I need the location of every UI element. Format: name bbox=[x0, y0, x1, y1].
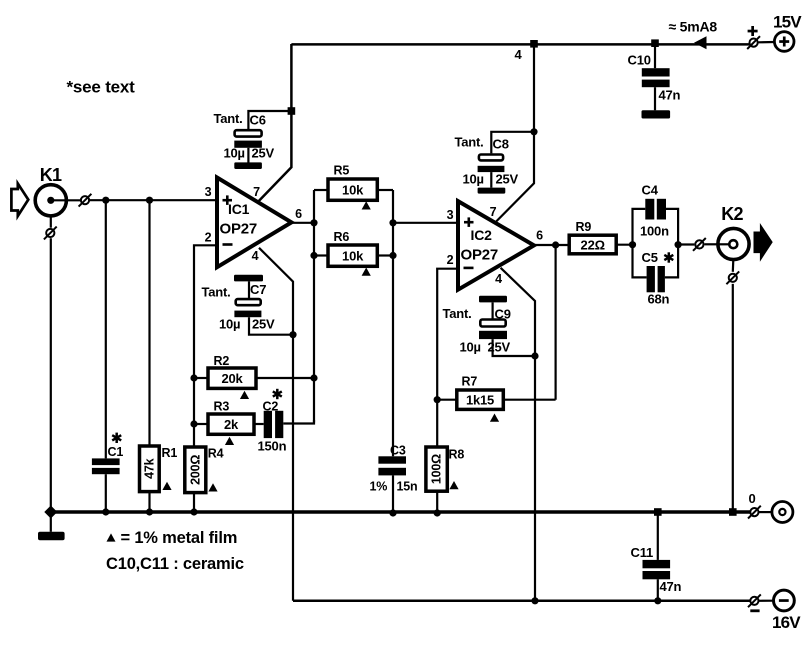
wire feedback bus vertical bbox=[313, 190, 315, 423]
resistor R5 bbox=[314, 189, 328, 191]
junction node (C11-V- rail) bbox=[654, 597, 661, 604]
capacitor C10 bbox=[654, 44, 656, 68]
svg-text:R5: R5 bbox=[334, 164, 350, 178]
svg-text:10k: 10k bbox=[342, 183, 364, 198]
svg-text:C2: C2 bbox=[263, 400, 279, 414]
svg-text:4: 4 bbox=[495, 272, 502, 286]
power arrow on V+ rail bbox=[694, 36, 707, 49]
op-amp IC1 bbox=[217, 178, 292, 268]
svg-text:0: 0 bbox=[749, 491, 756, 506]
junction node (bus2-out) bbox=[389, 219, 396, 226]
svg-text:R4: R4 bbox=[208, 446, 224, 460]
svg-text:3: 3 bbox=[447, 208, 454, 222]
resistor R2 bbox=[194, 377, 208, 379]
svg-text:47n: 47n bbox=[659, 88, 681, 103]
svg-text:IC2: IC2 bbox=[471, 227, 493, 243]
wire K1 to IC1 pin 3 bbox=[89, 199, 217, 201]
svg-text:10µ: 10µ bbox=[224, 146, 245, 161]
junction node (V+ to IC2 drop) bbox=[530, 40, 538, 48]
wire IC1 pin 2 bbox=[194, 245, 217, 447]
svg-text:1k15: 1k15 bbox=[466, 392, 494, 407]
svg-text:R9: R9 bbox=[576, 220, 592, 234]
junction node (C3-ground rail) bbox=[389, 509, 396, 516]
capacitor C2 bbox=[264, 411, 272, 438]
wire to K2 bbox=[678, 243, 694, 245]
capacitor C7 tantalum bbox=[234, 275, 263, 282]
ground symbol bbox=[50, 512, 52, 532]
svg-text:C5: C5 bbox=[642, 250, 658, 265]
junction node (C9 tap) bbox=[531, 352, 538, 359]
svg-text:R3: R3 bbox=[214, 399, 230, 413]
svg-text:OP27: OP27 bbox=[461, 247, 499, 264]
capacitor C6 tantalum bbox=[248, 111, 291, 129]
svg-text:Tant.: Tant. bbox=[214, 111, 243, 126]
junction node (C11-rail) bbox=[654, 508, 662, 516]
output arrow bbox=[755, 227, 772, 258]
junction node (bus-R2) bbox=[310, 374, 317, 381]
ground bar below C6 bbox=[234, 162, 262, 169]
svg-text:2: 2 bbox=[205, 231, 212, 245]
svg-text:*see text: *see text bbox=[67, 78, 136, 97]
junction node (out-R7) bbox=[552, 241, 559, 248]
svg-text:Tant.: Tant. bbox=[455, 135, 484, 150]
junction node (input-C1) bbox=[102, 197, 109, 204]
wire R7 up to output node bbox=[554, 245, 556, 400]
svg-text:R6: R6 bbox=[334, 230, 350, 244]
junction node (C6 tap) bbox=[288, 107, 296, 115]
svg-text:4: 4 bbox=[252, 249, 259, 263]
resistor R6 bbox=[314, 254, 328, 256]
svg-text:15n: 15n bbox=[397, 480, 418, 494]
svg-text:6: 6 bbox=[295, 207, 302, 221]
wire K2 shield bbox=[732, 260, 735, 272]
capacitor C4 bbox=[633, 209, 646, 245]
svg-text:Tant.: Tant. bbox=[443, 306, 472, 321]
svg-text:25V: 25V bbox=[252, 146, 275, 161]
resistor R4 bbox=[185, 447, 206, 493]
terminal 15V positive bbox=[774, 32, 794, 52]
svg-text:C10,C11 : ceramic: C10,C11 : ceramic bbox=[106, 555, 244, 573]
svg-text:C7: C7 bbox=[250, 282, 266, 297]
svg-text:K2: K2 bbox=[721, 204, 743, 224]
connector pin (K1 hot) bbox=[79, 194, 92, 207]
svg-text:20k: 20k bbox=[221, 371, 243, 386]
svg-text:R2: R2 bbox=[214, 354, 230, 368]
wire connector to 15V terminal bbox=[759, 41, 775, 43]
input arrow bbox=[11, 184, 28, 217]
capacitor C8 tantalum bbox=[491, 132, 534, 154]
junction node (K2 shield-rail) bbox=[729, 508, 737, 516]
svg-text:22Ω: 22Ω bbox=[581, 237, 605, 252]
wire IC2 pin 2 bbox=[437, 269, 458, 447]
resistor R7 bbox=[437, 399, 457, 401]
svg-text:1%: 1% bbox=[370, 480, 388, 494]
capacitor C11 bbox=[657, 512, 659, 560]
junction node (V+ to C10) bbox=[651, 39, 659, 47]
svg-text:C3: C3 bbox=[390, 444, 406, 458]
junction diamond (K1 shield-rail) bbox=[44, 505, 57, 518]
svg-text:7: 7 bbox=[490, 205, 497, 219]
wire to IC2 pin 3 bbox=[393, 222, 458, 224]
wire K1 shield stub bbox=[50, 216, 52, 228]
svg-text:100Ω: 100Ω bbox=[430, 454, 444, 484]
svg-text:16V: 16V bbox=[772, 613, 801, 632]
rail V- bbox=[293, 599, 750, 602]
connector pin (K2 shield) bbox=[726, 271, 739, 284]
minus label at connector bbox=[750, 609, 759, 612]
junction node (pin2-R2) bbox=[190, 374, 197, 381]
resistor R1 bbox=[148, 203, 150, 446]
wire V+ top rail bbox=[291, 43, 749, 46]
connector -15V bbox=[748, 594, 761, 607]
junction node (R9-C4C5) bbox=[629, 241, 636, 248]
svg-text:R8: R8 bbox=[449, 448, 465, 462]
svg-text:Tant.: Tant. bbox=[202, 285, 231, 300]
svg-text:C9: C9 bbox=[495, 307, 511, 322]
op-amp IC2 bbox=[458, 201, 534, 290]
ground bar below C8 bbox=[478, 188, 506, 194]
svg-text:C8: C8 bbox=[493, 137, 509, 152]
capacitor C9 tantalum bbox=[479, 296, 507, 303]
junction node (bus-R6) bbox=[310, 252, 317, 259]
wire V+ drop to IC1 pin 7 bbox=[258, 44, 291, 202]
svg-text:10µ: 10µ bbox=[463, 172, 484, 187]
connector +15V bbox=[747, 36, 760, 49]
svg-text:R1: R1 bbox=[162, 446, 178, 460]
ground bar below C10 bbox=[642, 110, 671, 118]
svg-text:= 1% metal film: = 1% metal film bbox=[121, 529, 238, 547]
svg-text:C1: C1 bbox=[108, 445, 124, 459]
svg-text:10µ: 10µ bbox=[219, 317, 240, 332]
wire IC2 output bbox=[533, 244, 569, 246]
plus label at connector bbox=[748, 30, 758, 33]
svg-text:100n: 100n bbox=[640, 223, 669, 238]
junction node (R8-ground rail) bbox=[434, 509, 441, 516]
svg-text:47n: 47n bbox=[660, 579, 682, 594]
junction node (bus2-R6) bbox=[389, 252, 396, 259]
wire K1 shield to ground rail bbox=[50, 238, 52, 511]
svg-text:25V: 25V bbox=[252, 317, 275, 332]
terminal -15V bbox=[774, 590, 795, 611]
svg-text:C4: C4 bbox=[642, 183, 659, 198]
svg-text:4: 4 bbox=[515, 47, 523, 62]
wire right bus down to C3 bbox=[392, 190, 394, 456]
connector pin (K1 shield) bbox=[44, 227, 57, 240]
junction node (C8 tap) bbox=[530, 128, 537, 135]
wire IC1 pin 4 to V- line bbox=[259, 248, 293, 601]
junction node (C7 tap) bbox=[289, 331, 296, 338]
svg-text:6: 6 bbox=[536, 229, 543, 243]
svg-text:3: 3 bbox=[205, 185, 212, 199]
svg-text:OP27: OP27 bbox=[220, 221, 258, 238]
wire IC1 output to feedback bus bbox=[292, 222, 314, 224]
connector pin (K2 hot) bbox=[693, 238, 706, 251]
ground rail 0V bbox=[49, 510, 751, 513]
svg-text:7: 7 bbox=[253, 185, 260, 199]
svg-text:10µ: 10µ bbox=[460, 340, 481, 355]
junction node (C4C5-K2) bbox=[675, 241, 682, 248]
svg-text:IC1: IC1 bbox=[228, 201, 250, 217]
capacitor C5 bbox=[633, 245, 647, 278]
junction node (R4-rail) bbox=[190, 508, 197, 515]
resistor R3 bbox=[194, 423, 208, 425]
svg-text:2k: 2k bbox=[224, 417, 239, 432]
svg-text:≈ 5mA8: ≈ 5mA8 bbox=[669, 19, 718, 35]
junction node (R1-rail) bbox=[146, 508, 153, 515]
svg-text:10k: 10k bbox=[342, 249, 364, 264]
svg-text:200Ω: 200Ω bbox=[188, 455, 202, 485]
svg-text:25V: 25V bbox=[488, 340, 511, 355]
svg-text:25V: 25V bbox=[496, 172, 519, 187]
junction node (input-R1) bbox=[146, 197, 153, 204]
junction node (C1-rail) bbox=[102, 508, 109, 515]
note 1% metal film bbox=[107, 533, 116, 541]
connector 0V bbox=[748, 506, 761, 519]
junction node (pin2-R7) bbox=[434, 396, 441, 403]
resistor R8 bbox=[426, 447, 447, 491]
terminal 0V bbox=[772, 502, 793, 523]
capacitor C1 bbox=[105, 203, 107, 458]
wire V+ drop to IC2 pin 7 bbox=[496, 44, 534, 221]
svg-text:47k: 47k bbox=[142, 458, 156, 479]
svg-text:68n: 68n bbox=[648, 292, 670, 307]
svg-text:C10: C10 bbox=[628, 53, 651, 68]
svg-text:R7: R7 bbox=[462, 374, 478, 388]
svg-text:K1: K1 bbox=[40, 165, 62, 185]
svg-text:150n: 150n bbox=[258, 439, 287, 454]
junction node (IC2 V- drop) bbox=[531, 597, 538, 604]
svg-text:15V: 15V bbox=[773, 12, 802, 31]
svg-text:C11: C11 bbox=[631, 545, 654, 560]
junction node (bus-out) bbox=[310, 219, 317, 226]
junction node (pin2-R3) bbox=[190, 420, 197, 427]
svg-text:2: 2 bbox=[447, 253, 454, 267]
wire IC2 pin 4 to V- line bbox=[501, 268, 535, 601]
svg-text:C6: C6 bbox=[250, 113, 266, 128]
resistor R9 bbox=[569, 235, 616, 254]
